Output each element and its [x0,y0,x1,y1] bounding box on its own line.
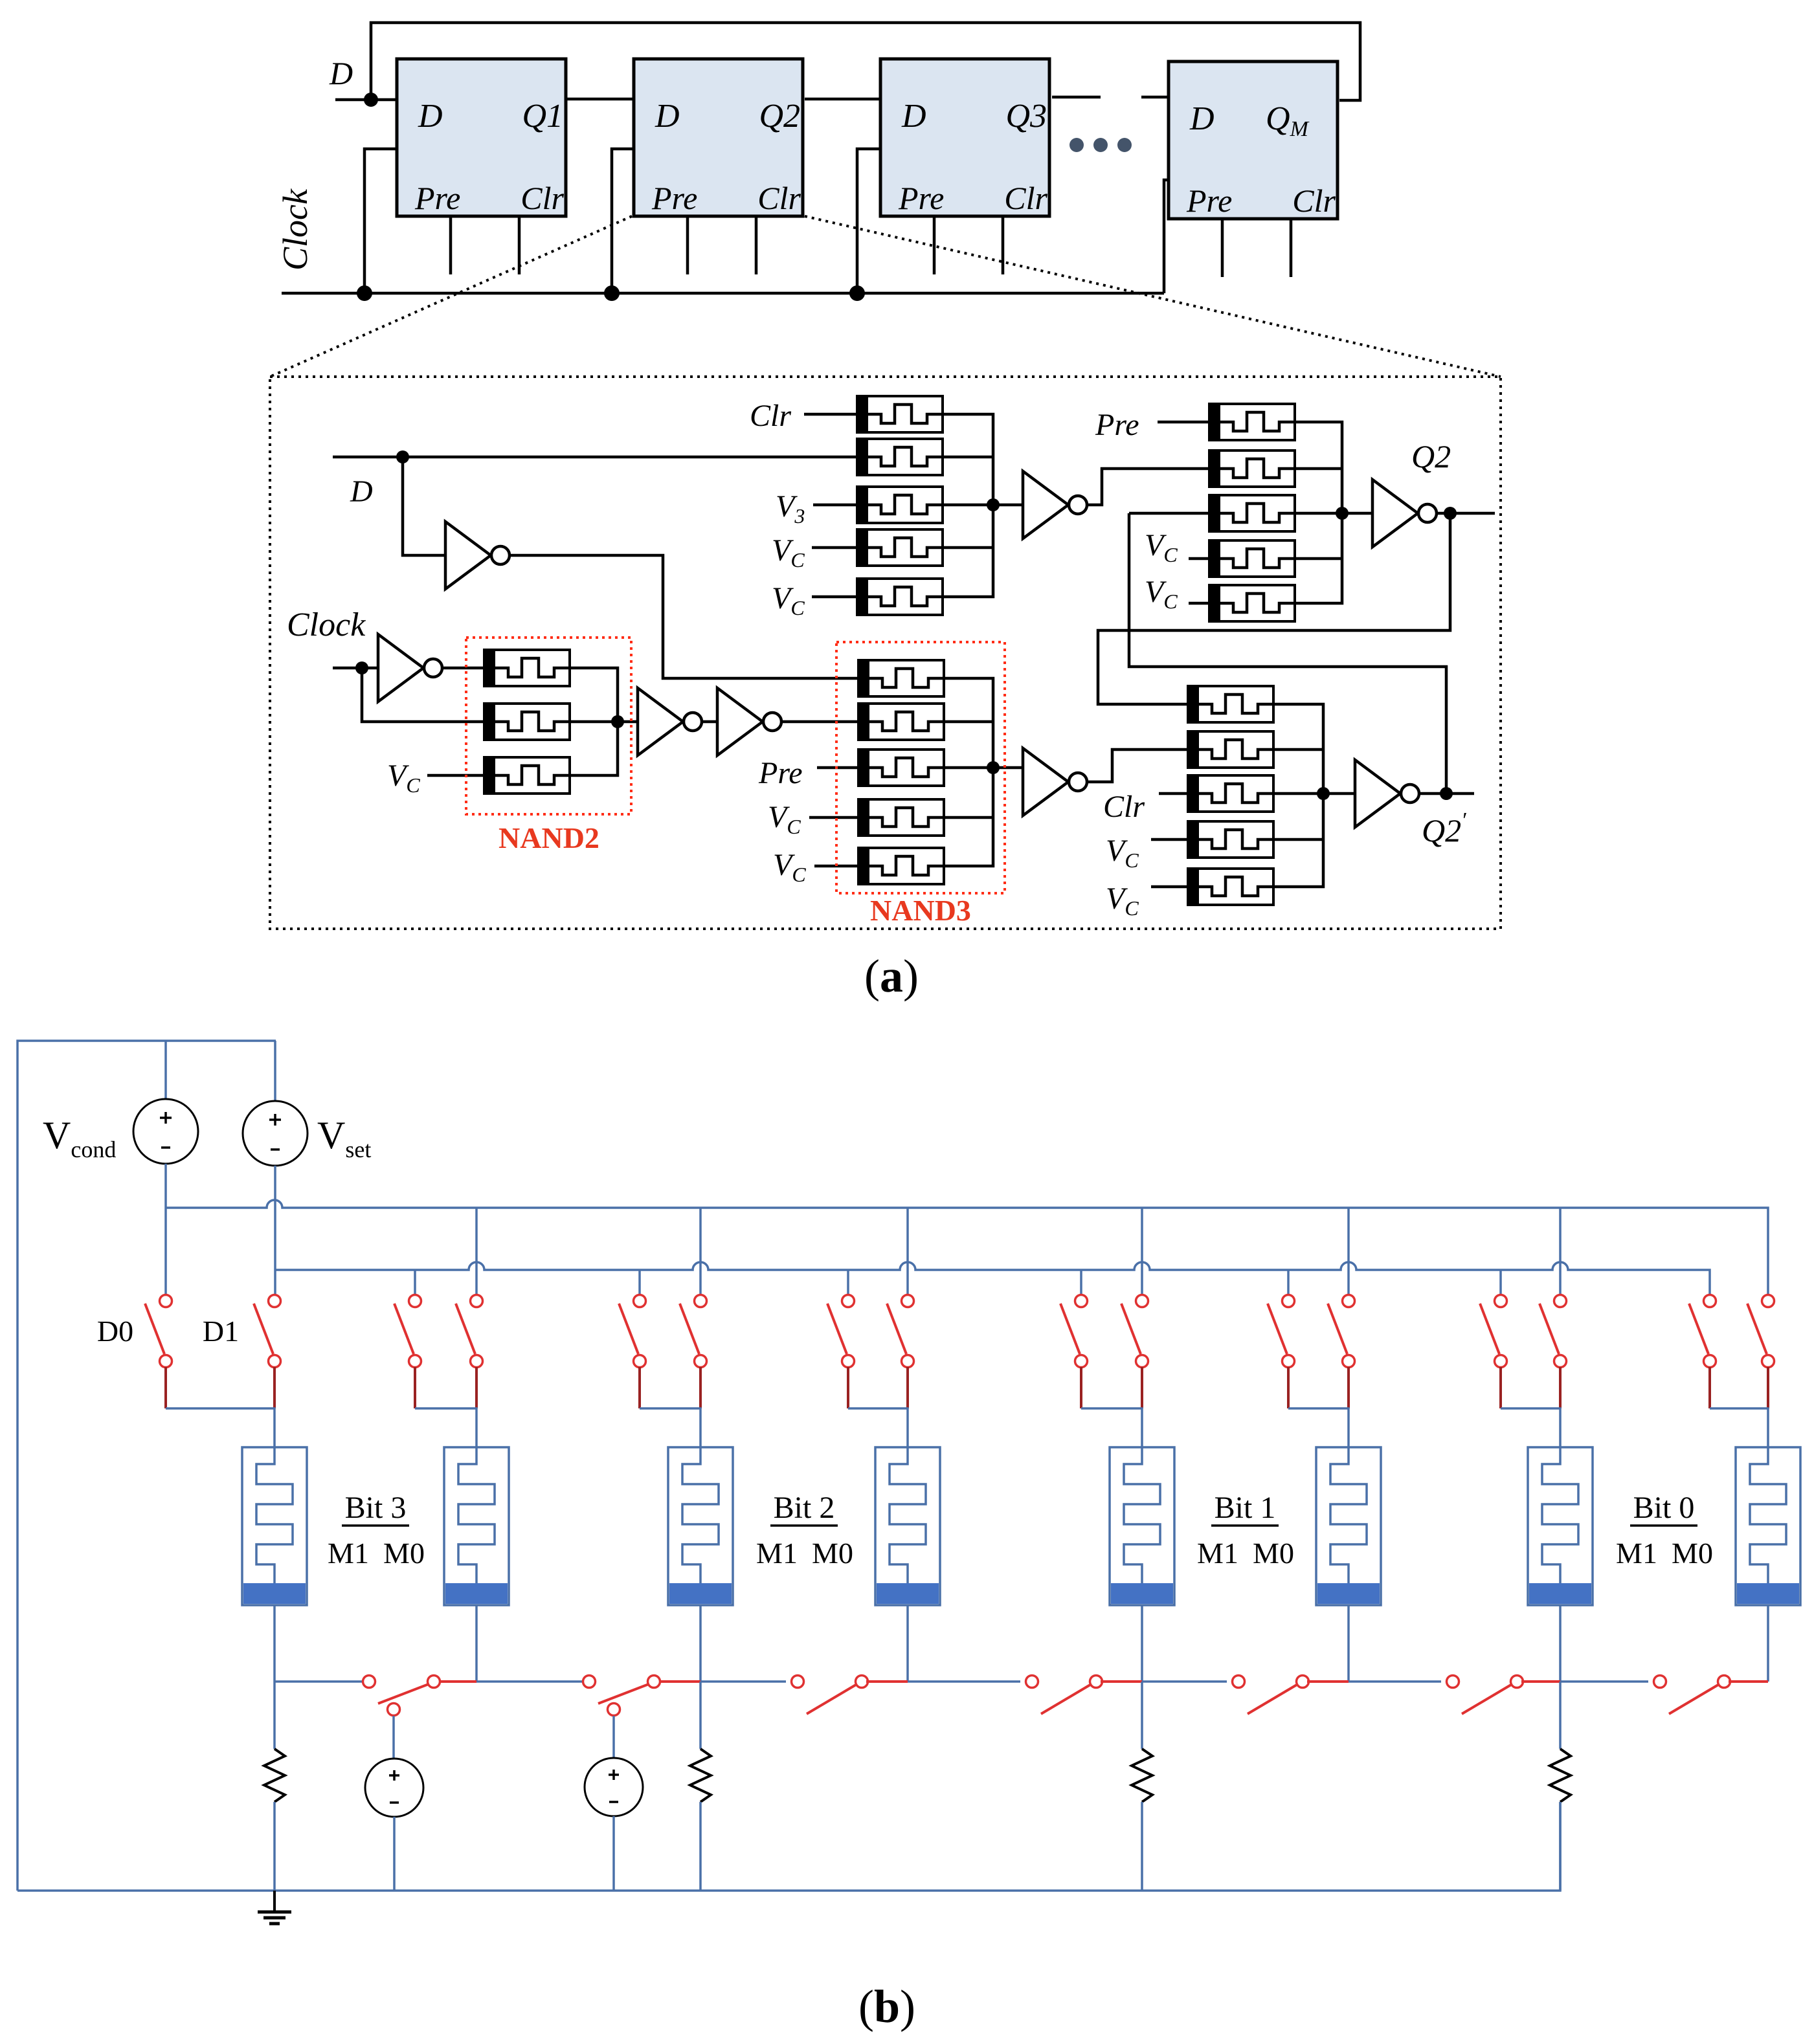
wire bus2 drop to pair4 left switch [847,1270,849,1294]
inverter U5 (NAND3 out) [1023,748,1087,816]
svg-text:Pre: Pre [1095,408,1139,442]
wire Q2bar output [1419,792,1474,795]
switch S3 (pair 2 left) [394,1295,421,1409]
switch S19 (series) [792,1676,868,1715]
flip-flop FF2 box [634,59,803,216]
wire S19 to next node (red) [866,1680,908,1683]
wire (b) outer left border [17,1041,276,1891]
wire VC to A-stack row4 [812,546,857,550]
wire Q2 to Q2-bar stack row1 (feedback) [1098,513,1450,704]
memristor A-stack M2 [857,439,943,475]
wire pair 1 join to memristor [166,1408,274,1447]
wire bus1 drop to pair6 right switch [1347,1208,1350,1294]
memristor Q2-stack M5 [1209,585,1295,621]
wire Clock to FF1 [364,149,397,293]
wire bus Vset (bus2) with hops [275,1262,1710,1294]
switch S21 (series) [1233,1676,1309,1715]
wire Bit 1 M1 bottom lead [1141,1605,1143,1682]
wire D input stub [335,98,397,102]
switch S9 (pair 5 left) [1060,1295,1088,1409]
wire bus1 drop to pair4 right switch [906,1208,909,1294]
wire U5 out to Q2-bar stack row2 [1087,750,1188,782]
wire node to S22 [1349,1680,1441,1683]
svg-text:Bit 0: Bit 0 [1633,1491,1695,1525]
wire S23 to next node (red) [1729,1680,1768,1683]
memristor NAND3-M3 [858,750,944,786]
memristor NAND2-M1 [484,650,570,686]
detail box dotted border [270,377,1501,929]
memristor Q2bar-stack M3 [1188,775,1273,812]
wire Pre to Q2 stack row1 [1158,421,1209,424]
wire S20 to next node (red) [1101,1680,1142,1683]
svg-text:Q2′: Q2′ [1422,808,1466,849]
svg-text:D: D [655,98,680,135]
wire bus2 drop to pair6 left switch [1287,1270,1290,1294]
wire Clock to FFM [1164,180,1169,293]
switch S16 (pair 8 right) [1747,1295,1775,1409]
svg-text:Q2: Q2 [1411,438,1451,474]
wire Clock to NAND2 row2 [362,668,484,722]
node Q2bar output [1317,787,1330,800]
resistor R4 [1550,1749,1571,1802]
wire Bit 3 M0 bottom lead [475,1605,478,1682]
FF1 Clr pin stub [518,216,521,274]
zoom dotted diagonal left [270,216,632,377]
switch S12 (pair 6 right) [1328,1295,1355,1409]
wire Bit 0 M0 bottom lead [1767,1605,1769,1682]
svg-text:D: D [329,55,353,91]
svg-text:Pre: Pre [414,180,460,216]
svg-text:D: D [901,98,926,135]
wire Bit 0 M1 bottom lead [1559,1605,1562,1682]
svg-text:Clr: Clr [1103,790,1145,824]
svg-text:Pre: Pre [758,756,803,790]
wire bus1 drop to pair7 right switch [1559,1208,1562,1294]
wire pair 7 join to memristor [1501,1408,1560,1447]
wire Vcond to D0 switch [164,1164,167,1294]
svg-text:Pre: Pre [1186,183,1232,219]
wire pair 3 join to memristor [640,1408,700,1447]
wire to resistor R3 [1141,1682,1143,1749]
memristor A-stack M4 [857,529,943,566]
wire node to S21 [1142,1680,1227,1683]
wire S22 to next node (red) [1521,1680,1560,1683]
memristor Q2bar-stack M2 [1188,731,1273,768]
node Clock junction FF2 [604,285,620,301]
ellipsis dots between Q3 and QM [1069,138,1132,152]
memristor Bit 3 M0 [444,1447,509,1605]
wire NAND2 output join [570,668,618,775]
FF2 Clr pin stub [755,216,758,274]
wire bus2 drop to pair7 left switch [1499,1270,1502,1294]
wire Bit 2 M0 bottom lead [906,1605,909,1682]
wire to Q2bar inverter [1323,792,1356,795]
voltage source Vs1 [365,1759,423,1817]
switch S4 (pair 2 right) [456,1295,483,1409]
memristor NAND3-M2 [858,704,944,740]
wire VC to Q2bar row5 [1151,885,1188,889]
wire S18 pole to Vs2 [612,1716,615,1758]
wire bus2 drop to pair3 left switch [638,1270,641,1294]
wire bus2 drop to pair5 left switch [1080,1270,1082,1294]
inverter U4 [717,688,781,755]
inverter U3 [638,688,702,755]
memristor NAND2-M2 [484,704,570,740]
svg-text:NAND2: NAND2 [498,821,599,854]
svg-text:M0: M0 [383,1537,425,1570]
switch S22 (series) [1447,1676,1523,1715]
switch S20 (series) [1026,1676,1103,1715]
inverter U8 (Q2bar) [1355,760,1419,827]
switch S14 (pair 7 right) [1540,1295,1567,1409]
wire VC to Q2 stack row4 [1189,557,1209,561]
wire to Q2 inverter [1342,512,1374,515]
svg-text:D0: D0 [97,1315,133,1348]
wire feedback QM to D (top loop) [371,23,1360,100]
wire Q3 output stub [1052,96,1101,99]
svg-text:Bit 1: Bit 1 [1215,1491,1276,1525]
wire node to S23 [1560,1680,1648,1683]
wire Bit3 M0 node to S18 [476,1680,583,1683]
memristor Q2bar-stack M4 [1188,821,1273,858]
memristor Bit 2 M1 [668,1447,733,1605]
svg-text:NAND3: NAND3 [870,894,971,927]
wire Q2 output [1437,512,1495,515]
memristor Bit 1 M0 [1316,1447,1381,1605]
memristor Bit 2 M0 [875,1447,940,1605]
switch S7 (pair 4 left) [827,1295,855,1409]
switch S2 (pair 1 right) [254,1295,281,1409]
wire Clock input [333,667,378,670]
memristor Q2-stack M1 [1209,404,1295,440]
wire R2 to ground rail [699,1802,702,1891]
svg-text:Clr: Clr [750,399,791,433]
switch S17 (changeover to Vs1) [363,1676,440,1716]
wire A-stack output join [943,414,993,597]
wire U4 out to NAND3 row2 [781,720,858,724]
switch S1 (pair 1 left) [145,1295,172,1409]
memristor NAND2-M3 [484,757,570,794]
FF4 Pre pin stub [1221,219,1224,277]
memristor NAND3-M4 [858,799,944,836]
switch S18 (changeover to Vs2) [583,1676,660,1716]
resistor R2 [690,1749,711,1802]
svg-text:M0: M0 [1253,1537,1294,1570]
memristor A-stack M1 [857,396,943,432]
wire Q2 to FF3 D [805,98,880,101]
svg-text:M1: M1 [1616,1537,1657,1570]
inverter U2 (Clock) [378,634,442,702]
memristor Q2-stack M2 [1209,450,1295,487]
wire to resistor R4 [1559,1682,1562,1749]
ground symbol [258,1891,291,1924]
switch S10 (pair 5 right) [1121,1295,1148,1409]
wire Clock to FF2 [612,149,634,293]
wire bus1 drop to pair5 right switch [1141,1208,1143,1294]
wire Vs2 to ground rail [612,1816,615,1891]
node Q2bar output dot [1440,787,1453,800]
wire Pre to NAND3 row3 [817,766,858,770]
wire Vs1 to ground rail [393,1817,396,1891]
wire R1 to ground rail [273,1802,276,1891]
wire Q2bar to Q2 stack row3 (feedback) [1129,513,1446,794]
memristor NAND3-M1 [858,660,944,696]
memristor Q2bar-stack M1 [1188,686,1273,722]
voltage source Vcond [133,1099,198,1164]
wire S21 to next node (red) [1307,1680,1349,1683]
wire Q2bar output join [1273,704,1323,887]
memristor Bit 0 M1 [1528,1447,1593,1605]
flip-flop FF4 box [1169,61,1338,219]
wire Bit3 M1 node to S17 [274,1680,363,1683]
node D input junction [364,93,378,107]
node NAND2 output [611,715,624,728]
svg-text:Bit 2: Bit 2 [774,1491,835,1525]
wire pair 6 join to memristor [1288,1408,1349,1447]
wire ground rail [17,1802,1560,1891]
svg-text:Clr: Clr [757,180,801,216]
wire D to inverter [403,457,445,555]
svg-text:(b): (b) [858,1981,915,2032]
inverter U6 (A-stack out) [1023,471,1087,539]
wire R4 to ground rail [1559,1802,1562,1891]
switch S5 (pair 3 left) [619,1295,646,1409]
svg-text:Q2: Q2 [759,98,800,135]
memristor Bit 1 M1 [1110,1447,1174,1605]
wire bus1 drop to pair2 right switch [475,1208,478,1294]
svg-text:Clock: Clock [276,188,315,271]
wire R3 to ground rail [1141,1802,1143,1891]
wire bus2 drop to pair2 left switch [414,1270,416,1294]
wire Clock to FF3 [857,149,880,293]
wire node to S20 [908,1680,1020,1683]
wire S17 to Bit3 M0 node (red) [440,1680,476,1683]
wire pair 8 join to memristor [1710,1408,1768,1447]
switch S8 (pair 4 right) [887,1295,914,1409]
wire VC to NAND3 row4 [809,816,858,819]
svg-text:D1: D1 [203,1315,239,1348]
wire Bit 1 M0 bottom lead [1347,1605,1350,1682]
wire NAND2 out to inverter A [618,720,638,724]
wire VC to NAND2 row3 [427,774,484,777]
wire Clr to A-stack row1 [804,413,857,416]
node NAND3 output [987,761,1000,774]
node Q2 stack output [1336,507,1349,520]
FF1 Pre pin stub [449,216,453,274]
svg-text:D: D [350,474,373,509]
wire Clock bus [282,292,1164,295]
resistor R3 [1132,1749,1152,1802]
resistor R1 [264,1749,285,1802]
wire pair 2 join to memristor [415,1408,476,1447]
wire A-stack out to inverter [993,504,1024,507]
node Clock junction FF1 [357,285,372,301]
svg-text:M1: M1 [1197,1537,1238,1570]
memristor Bit 3 M1 [242,1447,307,1605]
inverter U1 (D) [445,522,509,589]
svg-text:Pre: Pre [651,180,697,216]
svg-text:D: D [418,98,443,135]
svg-text:M1: M1 [756,1537,798,1570]
svg-text:Clr: Clr [1292,183,1336,219]
wire pair 5 join to memristor [1081,1408,1142,1447]
wire U6 out to Q2 stack row2 [1087,469,1209,505]
memristor A-stack M5 [857,579,943,615]
wire NAND3 output join [944,678,993,866]
memristor A-stack M3 [857,487,943,523]
wire Q2-bar feedback into row3 [1129,512,1209,515]
wire V3 to A-stack row3 [813,504,857,507]
wire bus1 drop to pair3 right switch [699,1208,702,1294]
wire Bit 3 M1 bottom lead [273,1605,276,1682]
wire pair 4 join to memristor [848,1408,908,1447]
voltage source Vs2 [585,1758,643,1816]
svg-text:Q1: Q1 [522,98,563,135]
wire Vcond top lead [164,1041,167,1099]
inverter U7 (Q2) [1372,480,1437,547]
wire VC to Q2bar row4 [1151,838,1188,841]
memristor Q2-stack M3 [1209,495,1295,531]
wire U2 out to NAND2 row1 [442,667,484,670]
wire VC to Q2 stack row5 [1189,602,1209,605]
switch S11 (pair 6 left) [1268,1295,1295,1409]
FF2 Pre pin stub [686,216,689,274]
switch S15 (pair 8 left) [1689,1295,1716,1409]
node A-stack output [987,498,1000,511]
wire Q2 stack output join [1295,422,1342,603]
wire bus Vcond (bus1) with hop [166,1200,1768,1294]
switch S23 (series) [1654,1676,1730,1715]
memristor Q2-stack M4 [1209,540,1295,577]
flip-flop FF3 box [880,59,1049,216]
wire Bit 2 M1 bottom lead [699,1605,702,1682]
svg-text:M0: M0 [812,1537,853,1570]
svg-text:M1: M1 [328,1537,369,1570]
wire NAND3 out to inverter [993,766,1024,770]
memristor Q2bar-stack M5 [1188,869,1273,905]
node D junction [396,450,409,463]
wire VC to A-stack row5 [812,595,857,599]
svg-text:Pre: Pre [898,180,944,216]
svg-text:Clr: Clr [521,180,564,216]
switch S13 (pair 7 left) [1480,1295,1507,1409]
wire Vset to D1 switch [274,1166,276,1294]
voltage source Vset [243,1101,308,1166]
FF3 Clr pin stub [1002,216,1005,274]
wire S18 to Bit2 M1 node (red) [660,1680,700,1683]
NAND2 red dotted box [466,638,631,814]
svg-text:(a): (a) [864,950,919,1002]
node Clock junction FF3 [849,285,865,301]
wire D line [333,456,857,459]
wire to resistor R2 [699,1682,702,1749]
wire U1 out to NAND3 input 1 [509,555,858,678]
switch S6 (pair 3 right) [680,1295,707,1409]
wire Vset top lead [274,1041,276,1101]
node Q2 output [1444,507,1457,520]
wire Clr to Q2bar row3 [1159,792,1188,795]
svg-text:D: D [1189,100,1215,137]
wire Q1 to FF2 D [566,98,634,101]
wire S17 pole to Vs1 [392,1716,395,1759]
zoom dotted diagonal right [805,216,1501,377]
wire VC to NAND3 row5 [814,865,858,868]
svg-text:Clock: Clock [287,606,366,643]
svg-text:Clr: Clr [1004,180,1047,216]
memristor Bit 0 M0 [1736,1447,1800,1605]
wire U3 to U4 [702,720,717,724]
wire FFM D input stub [1141,96,1169,99]
svg-text:M0: M0 [1672,1537,1713,1570]
FF3 Pre pin stub [933,216,936,274]
flip-flop FF1 box [397,59,566,216]
NAND3 red dotted box [836,642,1005,893]
node Clock junction (detail) [355,661,368,674]
wire node to S19 [700,1680,786,1683]
memristor NAND3-M5 [858,848,944,884]
svg-text:Bit 3: Bit 3 [345,1491,407,1525]
FF4 Clr pin stub [1290,219,1293,277]
svg-text:Q3: Q3 [1005,98,1047,135]
wire to resistor R1 [273,1682,276,1749]
